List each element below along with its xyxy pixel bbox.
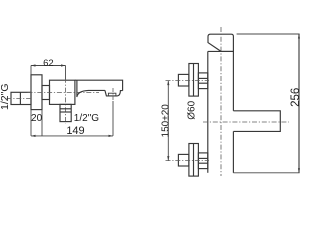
bottom connector nut [198, 153, 207, 169]
top inlet stub (front view) [178, 74, 189, 86]
top connector nut [198, 73, 207, 89]
svg-text:1/2"G: 1/2"G [74, 113, 99, 124]
svg-text:Ø60: Ø60 [187, 100, 198, 119]
dimension 150±20 arrows [167, 81, 169, 161]
handle (front view) [208, 34, 233, 51]
aerator housing under spout tip [105, 90, 123, 96]
bottom inlet centerline [166, 160, 210, 162]
dimension 149 line [31, 101, 113, 136]
svg-text:256: 256 [290, 88, 300, 107]
dimension 20 extension lines [31, 110, 42, 136]
top flange plate Ø60 [189, 64, 199, 97]
aerator inner detail [108, 93, 116, 96]
svg-text:150±20: 150±20 [161, 104, 172, 138]
wall flange escutcheon (side view) [31, 75, 42, 110]
spout (side view) [75, 80, 123, 91]
dimension 256 line [298, 34, 300, 173]
body column vertical centerline [220, 27, 222, 176]
top inlet centerline [166, 80, 210, 82]
dimension 150±20 line [167, 81, 169, 161]
body vertical centerline [65, 68, 67, 124]
aerator centerline [112, 88, 114, 101]
inlet stub centerline [7, 97, 32, 99]
bottom inlet stub (front view) [178, 154, 189, 166]
svg-text:62: 62 [43, 58, 54, 69]
body column (front view) [208, 50, 234, 52]
svg-text:1/2"G: 1/2"G [0, 83, 11, 110]
dimension 256 extension lines [233, 34, 299, 173]
mixer body block (side view) [50, 80, 75, 104]
spout bar (front view) [233, 111, 280, 132]
dimension 149 arrows [31, 135, 113, 137]
dimension 256 arrows [298, 34, 300, 173]
inlet stub thread line [19, 92, 21, 104]
dimension 62 arrows [31, 64, 66, 66]
outlet fitting 1/2"G below body [60, 104, 71, 121]
spout bar centerline [203, 121, 289, 123]
connector between escutcheon and body [42, 86, 50, 100]
svg-text:149: 149 [66, 125, 84, 137]
inlet stub pipe 1/2"G (side view) [11, 92, 31, 104]
bottom flange plate Ø60 [189, 144, 199, 177]
svg-text:20: 20 [31, 113, 43, 124]
body horizontal centerline [28, 91, 100, 93]
dimension 62 line [31, 66, 66, 80]
